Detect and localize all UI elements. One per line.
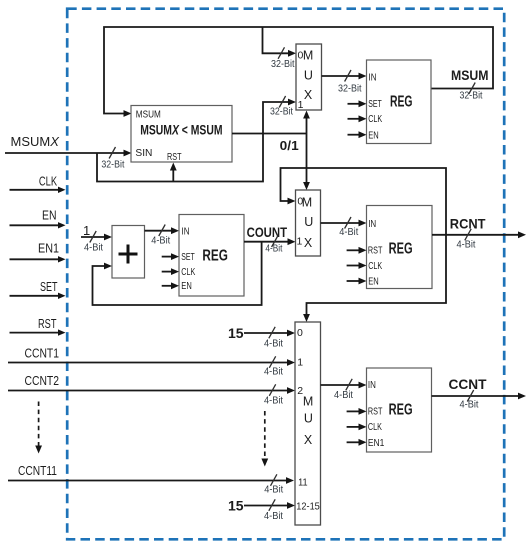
svg-text:REG: REG [390, 94, 413, 111]
svg-text:SET: SET [368, 99, 382, 110]
svg-text:CLK: CLK [368, 261, 382, 272]
mux U3 (4-bit 2:1) [296, 190, 321, 256]
wire: constant 1 into adder [81, 236, 104, 238]
label + (adder) [119, 245, 138, 264]
register U5 (RCNT REG) [367, 206, 433, 289]
svg-text:EN: EN [368, 131, 379, 142]
svg-text:32-Bit: 32-Bit [101, 160, 124, 171]
svg-text:15: 15 [228, 325, 244, 341]
register U4 (COUNT REG) [179, 215, 244, 297]
wire: MSUM feedback loop from REG U2 output to comparator MSUM input [104, 27, 493, 114]
svg-text:X: X [304, 236, 313, 250]
svg-text:REG: REG [389, 241, 413, 258]
svg-text:M: M [303, 49, 313, 63]
svg-text:4-Bit: 4-Bit [264, 511, 283, 522]
svg-text:EN1: EN1 [38, 240, 59, 255]
svg-text:REG: REG [202, 248, 228, 265]
svg-text:SET: SET [40, 279, 58, 294]
adder A1 [112, 226, 145, 279]
svg-text:4-Bit: 4-Bit [339, 227, 358, 238]
svg-text:M: M [302, 195, 312, 209]
wire: select vertical up into MUX U1 [306, 119, 308, 134]
wire: constant 15 to MUX U6 input 0 [244, 332, 287, 334]
svg-text:M: M [303, 395, 313, 409]
svg-text:MSUMX: MSUMX [11, 134, 61, 149]
wire: CCNT2 to MUX U6 input 2 [8, 390, 287, 392]
svg-text:15: 15 [228, 498, 244, 514]
svg-text:4-Bit: 4-Bit [334, 390, 353, 401]
svg-text:U: U [304, 215, 313, 229]
wire: SET input arrow [10, 295, 59, 297]
svg-text:1: 1 [83, 223, 90, 238]
wire: MSUMX branch to MUX U1 input 1 [97, 102, 288, 182]
svg-text:MSUM: MSUM [451, 67, 489, 83]
svg-text:32-Bit: 32-Bit [460, 91, 483, 102]
svg-text:RST: RST [368, 407, 383, 418]
svg-text:CLK: CLK [181, 267, 195, 278]
svg-text:4-Bit: 4-Bit [151, 236, 170, 247]
svg-text:SIN: SIN [135, 148, 152, 159]
svg-text:1: 1 [298, 99, 304, 111]
svg-text:RST: RST [368, 246, 383, 257]
svg-text:IN: IN [182, 227, 190, 238]
mux U6 (4-bit 16:1) [295, 322, 321, 525]
svg-text:MSUM: MSUM [136, 110, 161, 121]
wire: EN1 input arrow [10, 258, 59, 260]
svg-text:EN: EN [368, 277, 379, 288]
wire: CCNT output through boundary [432, 395, 519, 397]
svg-text:COUNT: COUNT [247, 224, 288, 240]
wire: MUX U1 output to REG U2 IN [322, 75, 359, 77]
wire: CLK arrow into REG U2 [348, 118, 359, 120]
wire: SET arrow into REG U2 [348, 103, 359, 105]
wire: CLK arrow into REG U4 [162, 271, 171, 273]
wire: RCNT output through boundary [432, 234, 518, 236]
svg-text:4-Bit: 4-Bit [460, 400, 479, 411]
svg-text:32-Bit: 32-Bit [271, 59, 295, 70]
wire: COUNT feedback into adder [93, 242, 262, 305]
wire: adder output to REG U4 IN [145, 230, 172, 232]
wire: RST input arrow [10, 332, 59, 334]
wire: EN arrow into REG U5 [347, 280, 359, 282]
wire: ellipsis dashed arrow (mux inputs) [264, 411, 266, 459]
svg-text:CLK: CLK [368, 422, 382, 433]
wire: constant 15 to MUX U6 input 12-15 [244, 505, 287, 507]
wire: CCNT11 to MUX U6 input 11 [8, 480, 286, 482]
svg-text:CCNT: CCNT [449, 376, 487, 392]
wire: MUX U6 output to REG U7 IN [321, 384, 359, 386]
wire: select vertical down into MUX U3 [306, 134, 308, 183]
svg-text:4-Bit: 4-Bit [264, 485, 283, 496]
svg-text:RST: RST [167, 152, 182, 163]
mux U1 (32-bit 2:1) [296, 44, 322, 110]
svg-text:12-15: 12-15 [296, 501, 320, 513]
svg-text:MSUMX < MSUM: MSUMX < MSUM [140, 123, 222, 138]
wire: EN input arrow [10, 224, 59, 226]
wire: SET arrow into REG U4 [162, 256, 171, 258]
svg-text:IN: IN [368, 380, 376, 391]
wire: EN1 arrow into REG U7 [347, 441, 359, 443]
svg-text:0/1: 0/1 [280, 138, 299, 153]
svg-text:4-Bit: 4-Bit [84, 243, 103, 254]
svg-text:EN: EN [42, 207, 57, 222]
wire: CLK arrow into REG U7 [347, 426, 359, 428]
svg-text:CLK: CLK [368, 114, 382, 125]
wire: RCNT select down to MUX U6 [307, 235, 447, 314]
wire: RST arrow into comparator bottom [172, 170, 174, 182]
wire: CLK arrow into REG U5 [347, 265, 359, 267]
wire: CLK input arrow [10, 189, 59, 191]
register U7 (CCNT REG) [367, 368, 432, 452]
svg-text:4-Bit: 4-Bit [457, 240, 476, 251]
svg-text:CCNT2: CCNT2 [25, 373, 60, 388]
register U2 (MSUM REG) [367, 60, 432, 144]
svg-text:4-Bit: 4-Bit [265, 244, 282, 255]
svg-text:1: 1 [297, 236, 303, 248]
svg-text:U: U [304, 69, 313, 83]
wire: feedback branch to MUX U1 input 0 [263, 27, 289, 53]
svg-text:32-Bit: 32-Bit [338, 84, 362, 95]
wire: RST arrow into REG U7 [347, 410, 359, 412]
svg-text:4-Bit: 4-Bit [264, 367, 283, 378]
svg-text:SET: SET [181, 252, 195, 263]
svg-text:1: 1 [297, 357, 303, 369]
svg-text:IN: IN [369, 73, 377, 84]
svg-text:RCNT: RCNT [450, 215, 486, 231]
module boundary dashed box [67, 9, 504, 540]
svg-text:4-Bit: 4-Bit [264, 396, 283, 407]
wire: MSUMX input to comparator SIN [5, 152, 124, 154]
wire: MUX U3 output to REG U5 IN [321, 222, 359, 224]
svg-text:CCNT1: CCNT1 [25, 346, 60, 361]
svg-text:X: X [304, 433, 313, 447]
svg-text:CLK: CLK [39, 174, 57, 189]
svg-text:REG: REG [389, 402, 413, 419]
wire: ellipsis dashed arrow (left inputs) [38, 402, 40, 447]
svg-text:32-Bit: 32-Bit [270, 107, 293, 118]
svg-text:X: X [304, 88, 313, 102]
svg-text:CCNT11: CCNT11 [18, 463, 57, 478]
svg-text:0: 0 [297, 327, 303, 339]
svg-text:U: U [304, 412, 313, 426]
svg-text:IN: IN [368, 219, 376, 230]
wire: COUNT output to MUX U3 input 1 [244, 241, 288, 243]
comparator U0 MSUMX < MSUM [131, 106, 232, 163]
wire: RCNT feedback to MUX U3 input 0 [281, 168, 447, 235]
svg-text:EN1: EN1 [368, 438, 385, 449]
wire: RST arrow into REG U5 [347, 249, 359, 251]
svg-text:RST: RST [38, 316, 57, 331]
svg-text:11: 11 [298, 477, 308, 489]
wire: CCNT1 to MUX U6 input 1 [8, 362, 287, 364]
svg-text:4-Bit: 4-Bit [264, 339, 283, 350]
wire: EN arrow into REG U2 [348, 134, 359, 136]
svg-text:EN: EN [181, 281, 192, 292]
wire: EN arrow into REG U4 [162, 285, 171, 287]
wire: comparator output to select node [232, 133, 307, 135]
